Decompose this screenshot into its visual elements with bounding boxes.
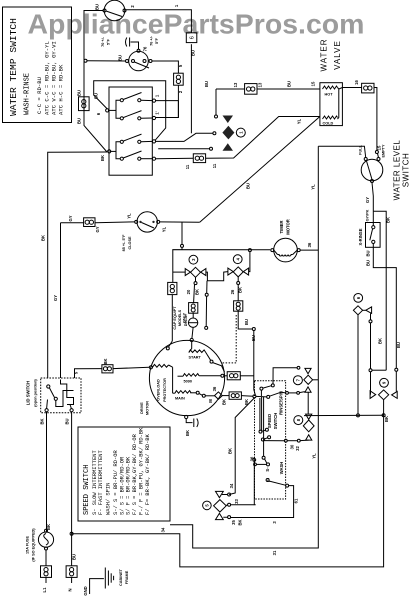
thermo bulb symbol above T2 [126, 38, 139, 50]
aux winding [173, 391, 215, 401]
svg-text:BK: BK [195, 289, 200, 295]
svg-text:BU: BU [244, 319, 249, 325]
svg-text:33: 33 [234, 499, 239, 504]
svg-text:11: 11 [212, 163, 217, 168]
wire t4 feed y149 [158, 148, 209, 150]
labels 15 BU [311, 80, 382, 151]
wire contact2 from conn [263, 439, 265, 457]
label BK [103, 358, 108, 364]
svg-text:VALVE: VALVE [333, 40, 342, 70]
wire node to T2 [87, 60, 126, 62]
svg-text:YL: YL [162, 226, 167, 232]
svg-text:BK: BK [384, 416, 389, 422]
svg-text:61: 61 [294, 498, 299, 503]
svg-text:GY: GY [365, 197, 370, 203]
contact 2 [267, 392, 305, 399]
contact 4 [261, 436, 270, 441]
start components bus [173, 250, 270, 283]
svg-text:FRAME: FRAME [125, 570, 129, 584]
svg-text:MOTOR: MOTOR [286, 219, 291, 235]
svg-text:F-/ F = BR-PU, GY-BK/ RD-BK: F-/ F = BR-PU, GY-BK/ RD-BK [139, 427, 145, 515]
valve common wire [338, 88, 339, 120]
ground wire [90, 579, 104, 594]
timer contact 1 [120, 93, 152, 102]
svg-text:1': 1' [155, 111, 160, 114]
jumper terminal6 to terminal3 [94, 81, 166, 140]
svg-text:F/ S = BR-BK,GY-BK/ RD-OR: F/ S = BR-BK,GY-BK/ RD-OR [132, 433, 138, 515]
motor internal bus [172, 367, 174, 393]
wire triangle1 down [369, 313, 372, 371]
svg-text:GND: GND [83, 586, 88, 595]
node [213, 132, 216, 135]
label 8 [185, 430, 190, 436]
svg-text:GY: GY [53, 295, 58, 301]
svg-text:5°F: 5°F [107, 38, 111, 45]
svg-text:BK: BK [238, 287, 243, 293]
svg-text:START: START [189, 356, 202, 360]
wire timer motor to right bus [300, 249, 318, 251]
top feed to hot valve: vertical and bus [215, 89, 218, 118]
svg-text:BK: BK [185, 430, 190, 436]
speed switch labels [267, 391, 284, 474]
circled tag 9 [380, 378, 389, 387]
svg-text:15: 15 [311, 81, 316, 86]
svg-text:13: 13 [233, 82, 238, 87]
svg-text:6: 6 [96, 112, 101, 115]
svg-text:34: 34 [161, 527, 166, 532]
wire timer t3 to diamond feed [156, 133, 213, 141]
branch thermostat wire down to start bus [181, 222, 184, 249]
svg-text:3: 3 [272, 521, 277, 524]
drive motor circle [149, 340, 224, 415]
label GY [53, 295, 58, 301]
svg-text:BK: BK [40, 418, 45, 424]
label 6 at timer left [94, 93, 106, 161]
harness group 4: right triangle [243, 268, 248, 275]
svg-text:S/ F = BR-OR/RD-BK: S/ F = BR-OR/RD-BK [126, 456, 132, 515]
wire BK vertical to junction [372, 369, 386, 371]
circled tag 1 [236, 128, 245, 137]
U jumper between groups [206, 272, 228, 281]
labels FULL EMPTY [359, 144, 386, 158]
harness group 3: diamond [191, 267, 201, 277]
svg-text:EMPTY: EMPTY [382, 144, 386, 158]
svg-text:F/ F= BR-BK, GY-BK/ RD-BK: F/ F= BR-BK, GY-BK/ RD-BK [145, 433, 151, 515]
svg-text:BK: BK [228, 448, 233, 454]
svg-text:5°F: 5°F [155, 37, 159, 44]
dashed cap-equipped enclosure edge [222, 315, 237, 363]
labels 20 BK [186, 289, 200, 295]
svg-text:SPEED: SPEED [267, 414, 272, 428]
svg-text:ATC H-C = RD-BK: ATC H-C = RD-BK [58, 64, 65, 115]
svg-text:SWITCH: SWITCH [402, 153, 411, 188]
harness plug black diamond [222, 126, 234, 140]
bottom harness: bottom triangle [216, 513, 224, 519]
label BK [230, 287, 256, 341]
wire wash terminal loop down [231, 486, 294, 518]
svg-text:BU: BU [95, 4, 100, 10]
svg-text:BU: BU [65, 418, 70, 424]
motor main connector [215, 392, 256, 399]
wire T2 right to connector chain [152, 61, 178, 73]
wire left of T1 [84, 11, 107, 153]
cap chain connector [166, 282, 177, 350]
svg-text:BK: BK [100, 155, 105, 161]
svg-text:BU: BU [118, 55, 123, 61]
svg-text:70 +/-: 70 +/- [101, 36, 105, 47]
bottom harness: top triangle [216, 491, 224, 497]
wire main connector diagonal down [229, 398, 254, 495]
wire group4 right up to bus [248, 249, 251, 272]
speed switch contact c1 [260, 368, 297, 396]
lid switch contacts [45, 380, 74, 412]
svg-text:BU: BU [77, 90, 82, 96]
svg-text:WATER TEMP SWITCH: WATER TEMP SWITCH [8, 18, 19, 116]
labels 11 [185, 163, 217, 169]
svg-text:RINSE/SPIN: RINSE/SPIN [279, 391, 284, 415]
svg-text:WASH-RINSE: WASH-RINSE [24, 73, 32, 115]
svg-text:20: 20 [186, 289, 191, 294]
harness diamond right column 1 [353, 306, 362, 315]
harness group 3: right triangle [201, 269, 206, 276]
svg-text:DELAY: DELAY [184, 313, 188, 326]
timer internal links upper [106, 100, 121, 118]
node [210, 147, 213, 150]
contact F arm to wash terminal [266, 479, 289, 488]
wire stack2 bottom to contact4 [264, 439, 309, 442]
label BU [191, 50, 196, 56]
label L1 [95, 4, 180, 10]
svg-text:S-: S- [265, 467, 270, 472]
water level switch label [393, 140, 411, 201]
wire timer t1 to chain junction [156, 100, 179, 102]
harness stack 2: top triangle [306, 414, 312, 419]
svg-text:M: M [208, 399, 213, 403]
long diagonal thermostat to cold valve [200, 117, 320, 223]
svg-text:SWITCH: SWITCH [273, 413, 278, 430]
connector on T2 chain [174, 73, 184, 85]
svg-text:LID SWITCH: LID SWITCH [26, 381, 31, 405]
label GY [68, 215, 100, 232]
svg-text:(open position): (open position) [34, 379, 38, 407]
start capacitor [188, 313, 197, 338]
harness group 3: left triangle [185, 269, 190, 276]
wire T3 left to connector [61, 218, 135, 227]
svg-text:BU: BU [191, 50, 196, 56]
motor top terminal [190, 338, 193, 341]
label BK [228, 448, 233, 454]
svg-text:BU: BU [396, 342, 401, 348]
long vertical right bus [170, 146, 318, 548]
circled tag 3 [189, 255, 198, 264]
svg-text:2: 2 [130, 5, 135, 8]
overload protector [149, 364, 172, 368]
svg-text:WASH: WASH [279, 462, 284, 475]
cabinet ground symbol [105, 568, 113, 589]
label 70 +/- 5F OPEN [101, 36, 111, 47]
svg-text:MODELS: MODELS [178, 309, 182, 326]
label 76 +/- 5F [143, 35, 160, 51]
water level switch feed wire [318, 146, 365, 157]
fuse [38, 529, 53, 550]
svg-text:OVERLOAD: OVERLOAD [157, 379, 161, 401]
cap equipt models only label [173, 306, 186, 330]
svg-text:SPEED SWITCH: SPEED SWITCH [83, 465, 91, 515]
wire chain down to t2 [156, 101, 179, 118]
svg-text:PROTECTOR: PROTECTOR [163, 378, 167, 402]
timer internal links lower [108, 142, 121, 159]
svg-text:BU: BU [287, 81, 292, 87]
lid switch box [41, 378, 81, 413]
lid switch labels [26, 371, 79, 424]
svg-text:9: 9 [382, 381, 387, 384]
wire group3 left to cap chain [173, 271, 185, 273]
overload protector label [157, 378, 168, 402]
wire diamond1 link [363, 309, 366, 311]
svg-text:76: 76 [143, 46, 148, 51]
label L1 [42, 524, 51, 592]
valve output wire through connector [339, 83, 379, 157]
wire T3 right to diagonal [160, 221, 200, 223]
timer motor [271, 238, 300, 262]
wire bus down right border [72, 415, 384, 567]
labels BU BU [366, 250, 401, 348]
start winding [189, 342, 225, 372]
svg-text:S-/ S = BR-PU/ RD-OR: S-/ S = BR-PU/ RD-OR [113, 450, 119, 515]
node [297, 366, 300, 369]
svg-text:76 +/-: 76 +/- [150, 35, 154, 46]
wire diamond to right bus [313, 379, 319, 381]
svg-text:BK: BK [222, 399, 227, 405]
motor start connector [224, 372, 254, 380]
wire lid switch down to N connector [70, 412, 73, 566]
label GY [365, 197, 370, 222]
svg-text:AppliancePartsPros.com: AppliancePartsPros.com [28, 9, 365, 40]
vertical wires inside speed switch [259, 398, 261, 431]
svg-text:BK: BK [378, 338, 383, 344]
svg-text:11: 11 [185, 164, 190, 169]
harness plug group right: left triangle [370, 391, 376, 399]
timer switch block [109, 87, 152, 175]
wire lid switch down to fuse [46, 412, 48, 532]
group3 chain down [189, 277, 198, 313]
harness stack right mid: bottom triangle [305, 387, 311, 392]
svg-text:BU: BU [72, 554, 77, 560]
thermostat switch T1 (top) [103, 0, 126, 21]
svg-text:GY/PK: GY/PK [366, 209, 370, 221]
svg-text:FULL: FULL [359, 144, 363, 154]
wire BU vertical to right triangle [395, 368, 398, 391]
svg-text:(IF SO EQUIPPED): (IF SO EQUIPPED) [32, 528, 36, 562]
svg-text:BU: BU [246, 183, 251, 189]
svg-text:1: 1 [155, 94, 160, 97]
harness group 4: left triangle [228, 268, 233, 275]
timer contact 4 [120, 151, 152, 160]
circled tag 7 [293, 376, 302, 385]
labels BU BU [77, 90, 82, 124]
connector tag 6 on vertical wire [186, 33, 197, 43]
water valve box [320, 83, 343, 126]
wire junction down to left plug of motor relay [370, 372, 372, 395]
svg-text:BU: BU [77, 118, 82, 124]
svg-text:3: 3 [191, 258, 196, 261]
label N [68, 554, 77, 592]
label BU on diagonal [246, 118, 302, 189]
svg-text:BU: BU [204, 81, 209, 87]
vertical to stack2 [307, 392, 309, 414]
svg-text:85 +/- 5°F: 85 +/- 5°F [122, 234, 126, 251]
bottom harness: diamond [214, 500, 227, 512]
svg-text:YL: YL [312, 453, 317, 459]
svg-text:5: 5 [205, 504, 210, 507]
water level switch [361, 158, 383, 183]
harness group 4: diamond [233, 267, 243, 277]
wire fuse to L1 connector [45, 550, 47, 566]
timer contact 2 [120, 111, 152, 120]
drive motor label [140, 401, 150, 415]
motor bottom terminal chassis stub [185, 415, 199, 427]
svg-text:BU: BU [251, 335, 256, 341]
bus y415 [304, 414, 385, 417]
wire timer t4 through connector to cold valve diagonal [156, 117, 320, 163]
svg-text:X-RINSE: X-RINSE [358, 228, 363, 245]
svg-text:6: 6 [190, 36, 196, 39]
svg-text:WATER: WATER [320, 39, 329, 72]
circled tag 6 right column [354, 294, 363, 303]
svg-text:BU: BU [366, 250, 371, 256]
harness stack 2: diamond [303, 420, 314, 432]
svg-text:8: 8 [296, 418, 301, 421]
harness plug group right: right triangle [392, 391, 398, 398]
circled tag 4 [233, 255, 242, 264]
svg-text:6: 6 [356, 296, 361, 299]
wire right of T1 to vertical BU [126, 10, 191, 33]
nodes right of bottom harness [222, 493, 254, 519]
svg-text:DRIVE: DRIVE [140, 402, 144, 414]
svg-text:32: 32 [295, 446, 300, 451]
wire left vertical to lid switch (GY) [60, 223, 62, 378]
svg-text:MAIN: MAIN [175, 397, 185, 401]
svg-text:F- FAST INTERMITTENT: F- FAST INTERMITTENT [98, 450, 104, 515]
svg-text:31: 31 [272, 550, 277, 555]
svg-text:L1: L1 [42, 587, 47, 593]
harness stack right mid: diamond [304, 375, 313, 384]
label 61 [272, 498, 299, 524]
N connector [66, 566, 77, 583]
label 1' [155, 94, 160, 114]
water temp switch legend box [3, 7, 72, 123]
timer contact 3 [120, 134, 152, 143]
speed switch dashed box [255, 381, 286, 499]
svg-text:BU: BU [366, 260, 371, 266]
labels M BK BK [208, 386, 249, 405]
label 5 [178, 64, 183, 67]
wire diamond1 down to bus [357, 315, 359, 415]
wire S contact up chain [253, 461, 256, 464]
group4 chain down [234, 277, 256, 395]
labels 13 13 BU [204, 81, 292, 87]
svg-text:MOTOR: MOTOR [146, 401, 150, 415]
cap tap stub [205, 281, 209, 330]
branch right to BK vertical [373, 211, 386, 370]
harness stack right mid: top triangle [305, 368, 311, 373]
svg-text:COLD: COLD [323, 122, 334, 126]
wire junction into contact2 [256, 395, 267, 398]
svg-text:C-C = RD-BU: C-C = RD-BU [36, 77, 43, 114]
label DELAY [184, 313, 188, 326]
top bus wire to water valve [216, 84, 320, 95]
svg-text:TIMER: TIMER [279, 220, 284, 233]
label 36 [307, 242, 312, 247]
svg-text:4: 4 [235, 257, 240, 260]
svg-text:1: 1 [174, 4, 179, 7]
node on left vertical wire [84, 59, 87, 62]
svg-text:YL: YL [127, 213, 132, 219]
svg-text:GY: GY [95, 226, 100, 232]
water valve label [320, 39, 343, 72]
water temp switch legend text [8, 18, 65, 116]
svg-text:1: 1 [238, 131, 243, 134]
circled tag 8 [294, 416, 303, 425]
svg-text:BK: BK [41, 235, 46, 241]
label X-RINSE [358, 228, 363, 245]
timer motor label [279, 219, 291, 235]
svg-text:BK: BK [238, 519, 243, 525]
cold solenoid coil [323, 116, 338, 126]
svg-text:BK: BK [46, 524, 51, 530]
thermostat switch T2 [126, 49, 153, 71]
contact S/F [254, 456, 270, 466]
svg-text:30: 30 [290, 444, 295, 449]
wire x-rinse to BU vertical [373, 244, 396, 369]
labels [229, 483, 243, 526]
labels 30 BK [290, 444, 301, 451]
svg-text:CABINET: CABINET [119, 568, 123, 586]
speed switch legend box [78, 427, 170, 521]
svg-text:15A FUSE: 15A FUSE [26, 536, 30, 554]
wire overload to lid connector [75, 365, 150, 378]
bottom left harness: circled tag 5 [203, 501, 212, 510]
svg-text:YL: YL [297, 118, 302, 124]
label BU [118, 55, 123, 61]
svg-text:HOT: HOT [325, 93, 334, 97]
wire BK from thermostat corner [48, 152, 107, 378]
x-rinse switch box [366, 211, 381, 247]
harness plug black triangle down [223, 116, 234, 124]
ground labels [83, 568, 129, 595]
svg-text:16: 16 [354, 80, 359, 85]
svg-text:WATER LEVEL: WATER LEVEL [393, 140, 402, 201]
timer terminal nodes right [152, 99, 155, 160]
main winding [178, 374, 224, 384]
svg-text:36: 36 [212, 386, 217, 391]
wire connector down to timer terminals [177, 85, 179, 117]
label 34 [161, 416, 390, 532]
svg-text:GY: GY [68, 215, 73, 221]
watermark [28, 9, 365, 40]
wire vertical BU down to diamond feed [190, 44, 192, 133]
svg-text:CLOSE: CLOSE [128, 236, 132, 250]
label 2 [178, 90, 183, 93]
harness plug black triangle up [223, 143, 234, 151]
wire wls bottom down [372, 183, 373, 212]
svg-text:5090: 5090 [184, 380, 192, 384]
labels S- F- [250, 456, 272, 482]
svg-text:36: 36 [307, 242, 312, 247]
L1 connector [41, 566, 52, 583]
svg-text:34: 34 [229, 483, 234, 488]
svg-text:BK: BK [103, 358, 108, 364]
